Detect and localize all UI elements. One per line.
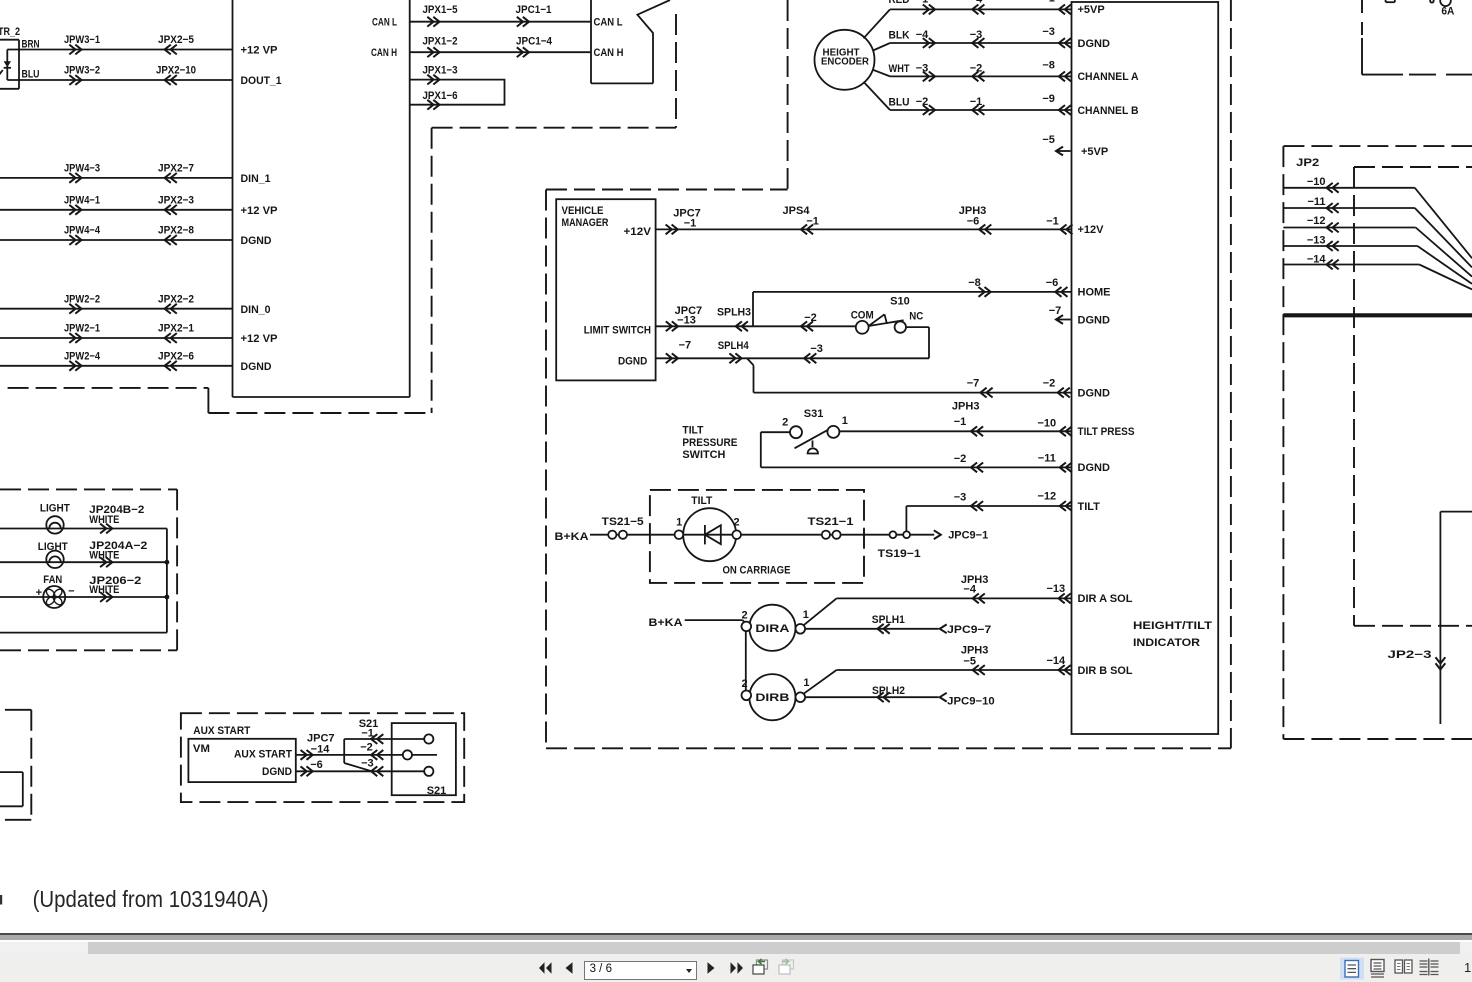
svg-text:BRN: BRN — [22, 39, 40, 51]
svg-text:−3: −3 — [810, 343, 823, 355]
svg-text:DGND: DGND — [1078, 38, 1110, 50]
svg-text:−7: −7 — [679, 340, 692, 352]
svg-text:−3: −3 — [1042, 26, 1055, 38]
svg-text:DIN_0: DIN_0 — [241, 304, 271, 316]
svg-text:(Updated from 1031940A): (Updated from 1031940A) — [33, 886, 269, 912]
svg-text:CAN L: CAN L — [372, 17, 397, 29]
svg-text:JPW4−1: JPW4−1 — [64, 195, 100, 207]
svg-text:+: + — [36, 587, 42, 599]
svg-text:JPX1−2: JPX1−2 — [423, 36, 458, 48]
svg-text:BLU: BLU — [889, 97, 910, 109]
svg-text:2: 2 — [741, 678, 747, 690]
svg-text:−4: −4 — [916, 29, 929, 41]
svg-text:JPC9−10: JPC9−10 — [947, 696, 995, 708]
svg-text:WHITE: WHITE — [89, 514, 119, 526]
svg-text:DIRB: DIRB — [755, 692, 789, 704]
svg-text:JPW2−1: JPW2−1 — [64, 323, 100, 335]
svg-text:−2: −2 — [360, 742, 373, 754]
svg-text:−14: −14 — [311, 744, 331, 756]
svg-text:VEHICLE: VEHICLE — [562, 205, 604, 217]
svg-text:−11: −11 — [1038, 453, 1056, 465]
svg-text:HOME: HOME — [1078, 287, 1111, 299]
svg-text:JPW2−2: JPW2−2 — [64, 293, 100, 305]
svg-text:JPC9−7: JPC9−7 — [947, 624, 991, 636]
svg-text:−9: −9 — [1042, 93, 1055, 105]
svg-text:−1: −1 — [954, 416, 967, 428]
svg-text:DIR B SOL: DIR B SOL — [1078, 665, 1133, 677]
svg-text:−6: −6 — [967, 216, 980, 228]
svg-text:ON CARRIAGE: ON CARRIAGE — [723, 565, 791, 577]
svg-text:B+KA: B+KA — [649, 617, 683, 629]
svg-text:LIMIT SWITCH: LIMIT SWITCH — [584, 324, 651, 336]
svg-text:2: 2 — [782, 417, 788, 429]
svg-text:+12 VP: +12 VP — [241, 333, 278, 345]
svg-text:LIGHT: LIGHT — [38, 541, 68, 553]
svg-text:TS21−5: TS21−5 — [602, 516, 644, 528]
svg-text:S10: S10 — [890, 296, 910, 308]
svg-text:−3: −3 — [954, 492, 967, 504]
svg-text:ENCODER: ENCODER — [821, 57, 870, 68]
svg-text:DGND: DGND — [1078, 314, 1110, 326]
svg-text:AUX START: AUX START — [193, 725, 250, 737]
svg-text:−7: −7 — [967, 378, 980, 390]
svg-text:−6: −6 — [310, 759, 323, 771]
svg-text:1: 1 — [842, 415, 848, 427]
svg-text:SPLH2: SPLH2 — [872, 685, 905, 697]
svg-text:−10: −10 — [1307, 176, 1326, 188]
svg-text:RED: RED — [889, 0, 910, 6]
svg-text:B+KA: B+KA — [555, 531, 589, 543]
svg-text:−1: −1 — [1042, 0, 1055, 4]
svg-text:TILT PRESS: TILT PRESS — [1078, 426, 1135, 438]
svg-text:HEIGHT/TILT: HEIGHT/TILT — [1133, 620, 1212, 632]
svg-text:CHANNEL A: CHANNEL A — [1078, 71, 1139, 83]
svg-text:DGND: DGND — [1078, 387, 1110, 399]
svg-text:TILT: TILT — [682, 425, 703, 437]
svg-text:SWITCH: SWITCH — [682, 449, 725, 461]
svg-text:TS19−1: TS19−1 — [878, 548, 921, 560]
svg-text:JPC1−1: JPC1−1 — [516, 4, 552, 16]
svg-text:JPW3−1: JPW3−1 — [64, 34, 100, 46]
svg-text:+12V: +12V — [624, 226, 652, 238]
svg-text:S21: S21 — [427, 785, 447, 797]
svg-text:−1: −1 — [1046, 216, 1059, 228]
svg-text:−3: −3 — [916, 63, 929, 75]
svg-text:+12 VP: +12 VP — [241, 45, 278, 57]
svg-text:−13: −13 — [1046, 583, 1065, 595]
svg-text:−7: −7 — [1049, 305, 1062, 317]
svg-text:TILT: TILT — [691, 495, 712, 507]
svg-text:VM: VM — [193, 743, 210, 755]
svg-text:−2: −2 — [954, 453, 967, 465]
svg-text:−: − — [68, 585, 74, 597]
svg-text:DIRA: DIRA — [755, 623, 789, 635]
svg-text:CAN H: CAN H — [371, 47, 397, 59]
svg-text:DGND: DGND — [241, 235, 272, 247]
svg-text:−13: −13 — [1307, 234, 1326, 246]
svg-text:CAN L: CAN L — [594, 17, 623, 29]
svg-text:1: 1 — [803, 609, 809, 621]
svg-text:PRESSURE: PRESSURE — [682, 437, 737, 449]
svg-text:MANAGER: MANAGER — [562, 217, 609, 229]
svg-text:INDICATOR: INDICATOR — [1133, 637, 1200, 649]
svg-text:−11: −11 — [1307, 196, 1325, 208]
svg-text:−14: −14 — [1307, 253, 1327, 265]
svg-text:DIN_1: DIN_1 — [241, 173, 271, 185]
svg-text:TILT: TILT — [1078, 501, 1101, 513]
svg-text:−4: −4 — [970, 0, 983, 6]
svg-text:−12: −12 — [1037, 491, 1056, 503]
svg-text:JPC9−1: JPC9−1 — [948, 530, 988, 542]
svg-text:+5VP: +5VP — [1078, 4, 1105, 16]
svg-text:LIGHT: LIGHT — [40, 503, 70, 515]
svg-text:TR_2: TR_2 — [0, 26, 20, 38]
svg-text:AUX START: AUX START — [234, 749, 292, 761]
svg-text:+12 VP: +12 VP — [241, 205, 278, 217]
svg-text:−2: −2 — [1043, 378, 1056, 390]
svg-text:DIR A SOL: DIR A SOL — [1078, 593, 1133, 605]
svg-text:−3: −3 — [361, 758, 374, 770]
svg-text:2: 2 — [733, 517, 739, 529]
svg-text:JPH3: JPH3 — [952, 400, 980, 412]
svg-text:6A: 6A — [1441, 6, 1454, 18]
svg-text:BLK: BLK — [889, 30, 910, 42]
svg-text:CAN H: CAN H — [594, 47, 624, 59]
svg-text:SPLH3: SPLH3 — [717, 307, 751, 319]
svg-text:BLU: BLU — [22, 69, 40, 81]
svg-text:−13: −13 — [677, 315, 696, 327]
svg-text:DGND: DGND — [262, 766, 292, 778]
svg-text:−4: −4 — [963, 584, 976, 596]
svg-text:DOUT_1: DOUT_1 — [241, 75, 282, 87]
svg-text:JP2−3: JP2−3 — [1388, 649, 1432, 661]
svg-text:−6: −6 — [1046, 277, 1059, 289]
svg-text:FAN: FAN — [43, 574, 62, 586]
svg-text:DGND: DGND — [241, 361, 272, 373]
svg-text:CHANNEL B: CHANNEL B — [1078, 105, 1139, 117]
svg-text:WHT: WHT — [889, 63, 910, 75]
svg-text:SPLH4: SPLH4 — [718, 340, 750, 352]
svg-text:TS21−1: TS21−1 — [808, 516, 854, 528]
svg-text:−5: −5 — [1042, 134, 1055, 146]
svg-text:−1: −1 — [684, 217, 697, 229]
svg-text:COM: COM — [851, 309, 874, 321]
svg-text:+5VP: +5VP — [1081, 146, 1108, 158]
svg-text:−5: −5 — [963, 656, 976, 668]
svg-text:DGND: DGND — [1078, 462, 1110, 474]
svg-text:1: 1 — [803, 677, 809, 689]
svg-text:−8: −8 — [1042, 59, 1055, 71]
svg-text:JPC1−4: JPC1−4 — [516, 36, 553, 48]
svg-text:−1: −1 — [916, 0, 929, 6]
svg-text:NC: NC — [909, 311, 923, 323]
svg-text:S31: S31 — [804, 408, 824, 420]
svg-text:−12: −12 — [1307, 215, 1326, 227]
svg-text:−2: −2 — [916, 96, 929, 108]
svg-text:2: 2 — [741, 610, 747, 622]
svg-text:JPW3−2: JPW3−2 — [64, 65, 100, 77]
svg-text:1: 1 — [676, 517, 682, 529]
svg-text:+12V: +12V — [1078, 224, 1105, 236]
svg-text:DGND: DGND — [618, 355, 647, 367]
svg-text:JP2: JP2 — [1296, 157, 1319, 169]
svg-text:JPX1−5: JPX1−5 — [423, 4, 458, 16]
svg-text:−10: −10 — [1037, 417, 1056, 429]
svg-text:JPW4−3: JPW4−3 — [64, 163, 100, 175]
